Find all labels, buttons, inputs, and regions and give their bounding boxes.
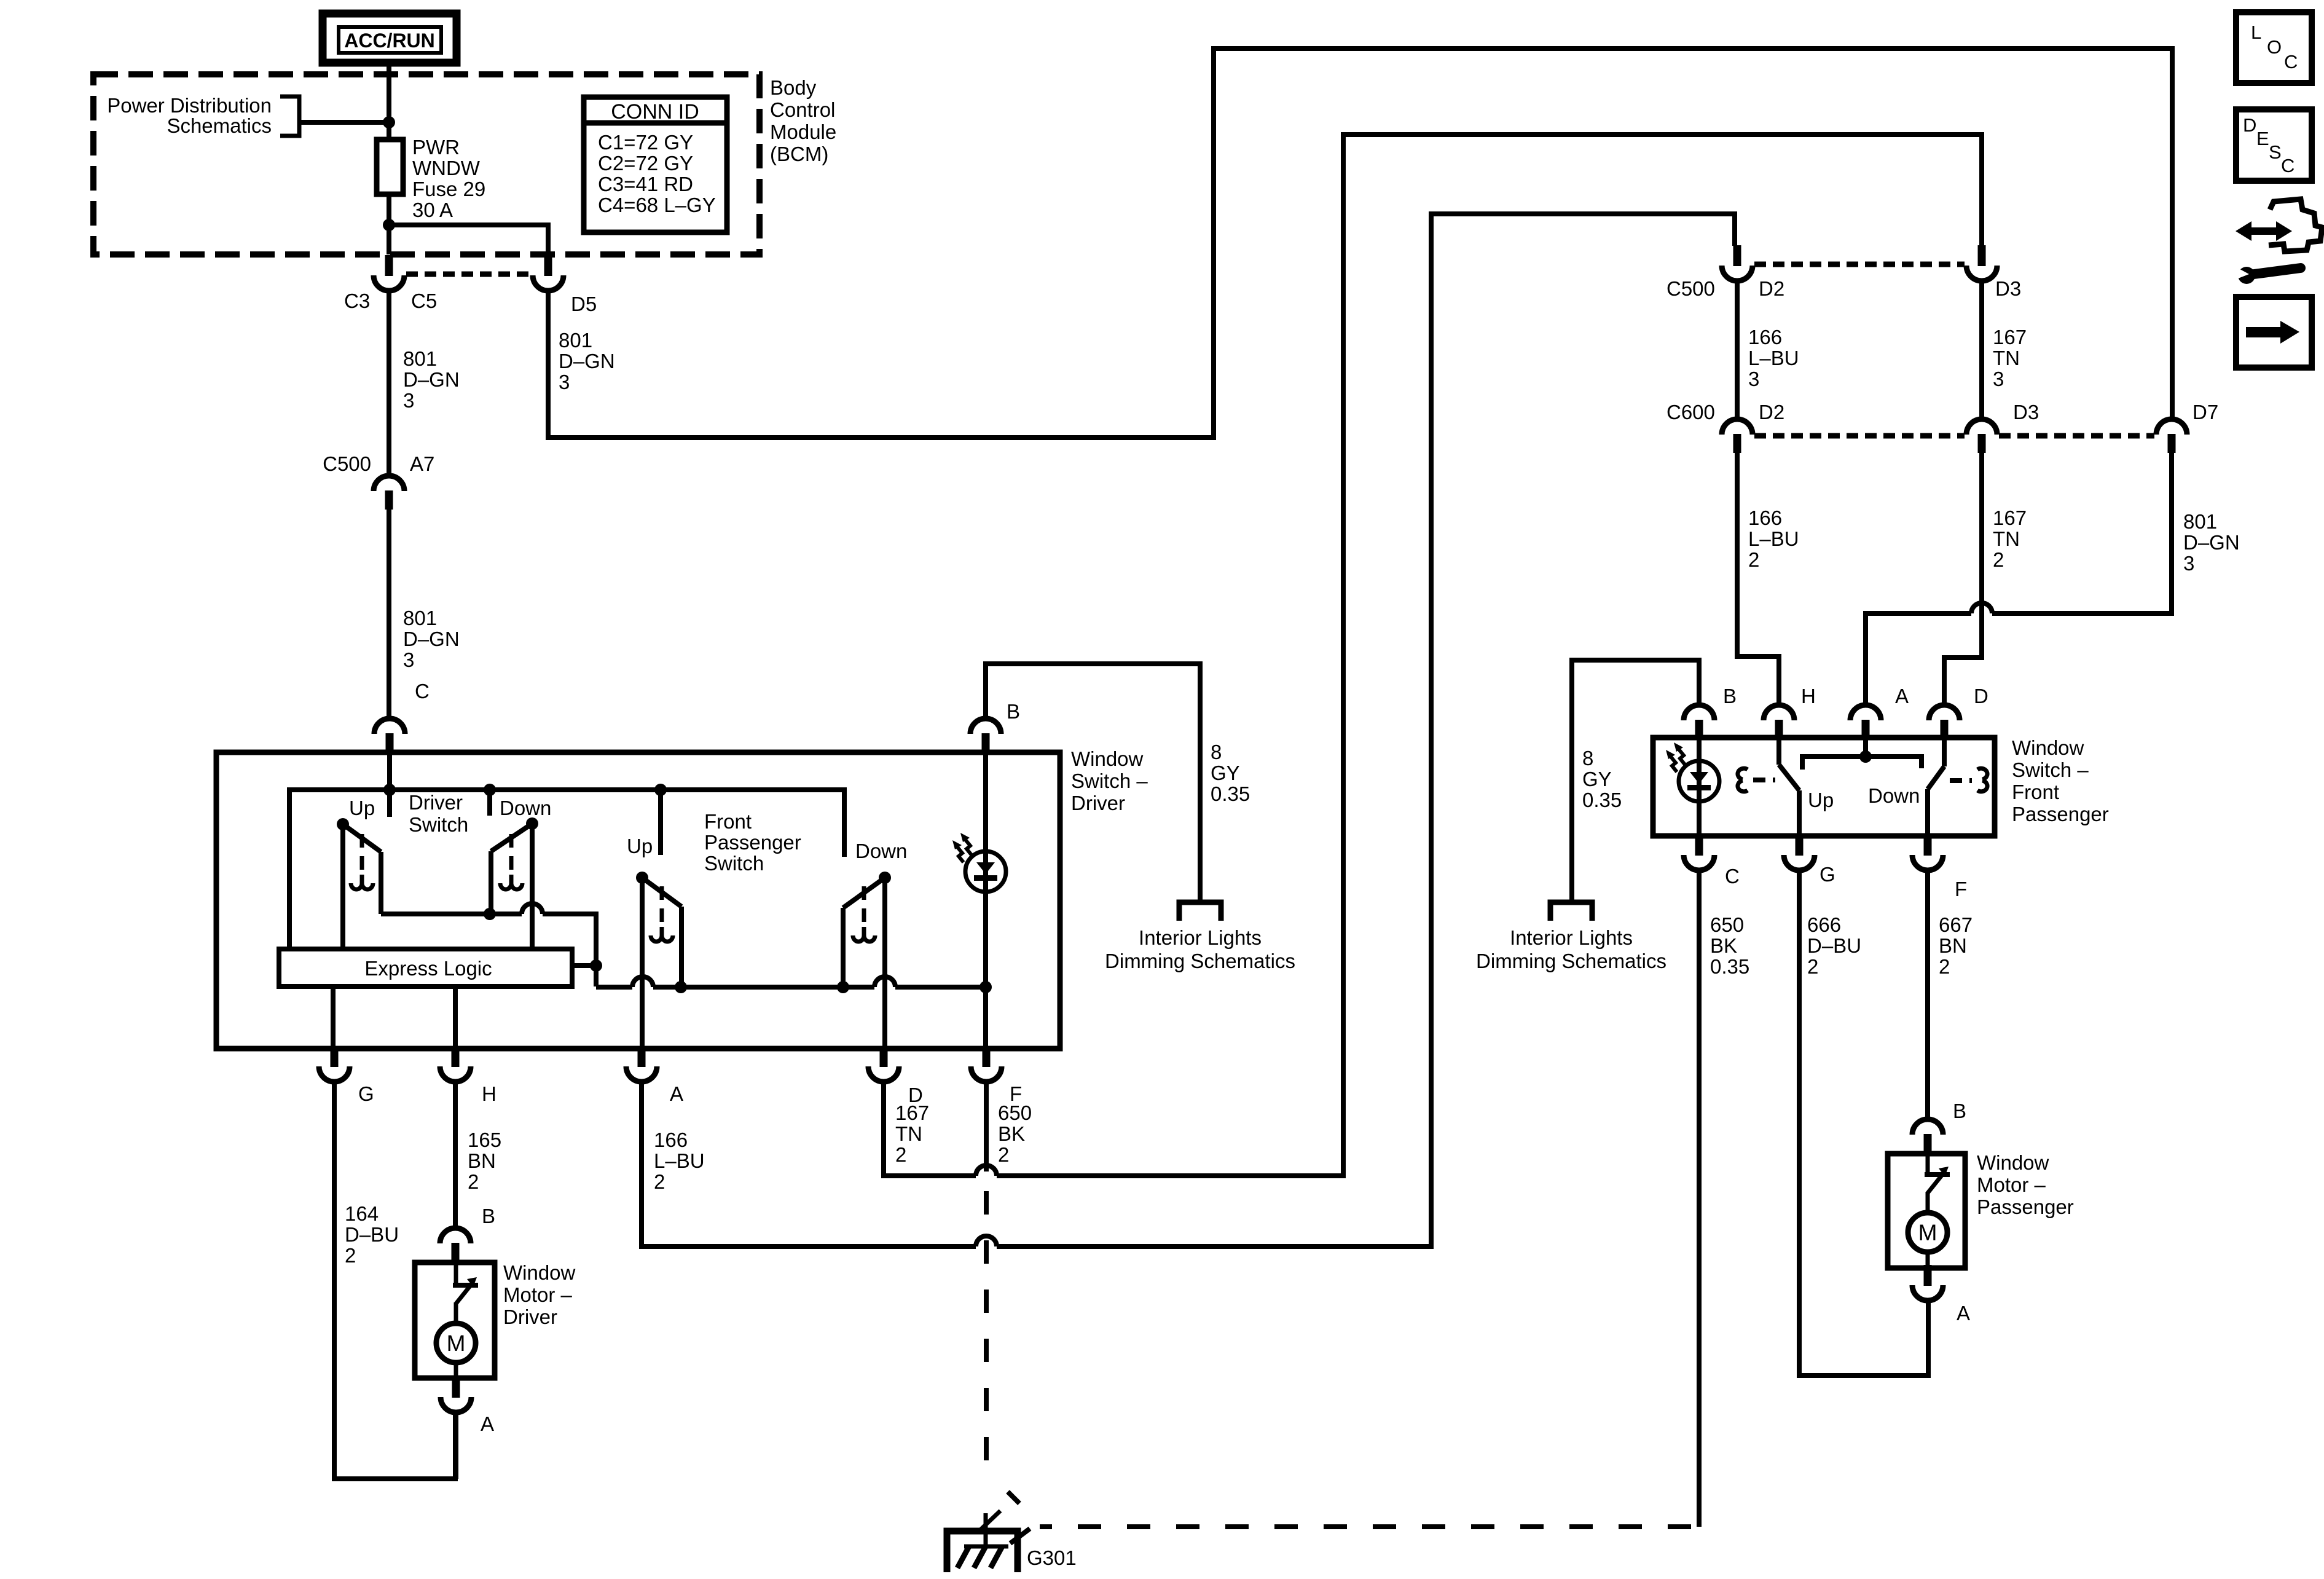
label fuse PWR WNDW Fuse 29 30 A	[412, 136, 485, 221]
svg-text:GY: GY	[1211, 762, 1240, 784]
svg-text:Up: Up	[349, 797, 375, 819]
off-page bracket interior lights dimming (passenger)	[1550, 902, 1592, 921]
icon LOC box	[2236, 12, 2312, 83]
internal rail passenger switch	[1802, 757, 1922, 770]
svg-text:Driver: Driver	[409, 791, 463, 814]
svg-text:G: G	[358, 1082, 374, 1105]
svg-text:L–BU: L–BU	[1748, 347, 1799, 369]
svg-text:C4=68 L–GY: C4=68 L–GY	[598, 194, 716, 216]
junction dot passenger up right leg at common	[675, 981, 687, 993]
wire 650 BK 0.35 from passenger C to ground run	[1697, 870, 1702, 1527]
svg-text:Driver: Driver	[1071, 792, 1125, 814]
motor M (driver)	[436, 1323, 476, 1378]
connector G (driver switch)	[319, 1046, 350, 1082]
svg-text:C3=41 RD: C3=41 RD	[598, 173, 693, 195]
svg-text:D5: D5	[571, 293, 597, 315]
wire 801 D-GN 3 from C500 A7 to driver switch C	[387, 510, 391, 719]
connector C3 (BCM)	[374, 255, 404, 291]
svg-text:801: 801	[559, 329, 592, 352]
svg-text:D–GN: D–GN	[403, 628, 460, 650]
connector B (passenger motor)	[1912, 1119, 1943, 1153]
svg-text:167: 167	[1993, 326, 2027, 348]
svg-text:0.35: 0.35	[1211, 782, 1250, 805]
switch passenger Up (H to G)	[1779, 738, 1799, 836]
svg-text:Window: Window	[503, 1261, 576, 1284]
wire from fuse node to D5	[389, 225, 548, 254]
label Window Motor - Driver	[503, 1261, 576, 1328]
value label 167 TN 2 (driver)	[895, 1101, 929, 1166]
LED indicator (driver switch)	[952, 752, 1006, 1051]
connector C600 D3	[1966, 419, 1997, 453]
wire 650 BK 2 dashed from F to G301	[984, 1082, 989, 1171]
value label 164 D-BU 2	[345, 1202, 399, 1267]
svg-text:D–BU: D–BU	[345, 1223, 399, 1246]
svg-text:D–GN: D–GN	[403, 368, 460, 391]
node Power Distribution Schematics	[107, 94, 272, 137]
svg-text:2: 2	[998, 1143, 1009, 1166]
svg-text:Module: Module	[770, 120, 836, 143]
connector D5 (BCM)	[533, 255, 563, 291]
value label 166 L-BU 2 (passenger)	[1748, 506, 1799, 571]
value label 801 D-GN 3 (C3 wire)	[403, 347, 460, 412]
svg-text:3: 3	[403, 389, 414, 412]
label Window Switch - Front Passenger	[2012, 736, 2109, 825]
wire 8 GY 0.35 from B to interior lights dimming	[986, 664, 1200, 900]
momentary contact symbol (passenger down)	[1977, 768, 1987, 792]
circuit breaker (driver motor)	[453, 1262, 478, 1325]
svg-text:Dimming Schematics: Dimming Schematics	[1105, 950, 1295, 972]
svg-text:C: C	[1725, 865, 1740, 888]
wire 8 GY 0.35 passenger B to interior lights dimming	[1572, 660, 1699, 900]
switch front passenger Up (in driver switch)	[636, 872, 681, 1051]
svg-text:Up: Up	[627, 835, 653, 857]
wire 167 TN 2 from D to C500 D3	[884, 135, 1982, 1176]
svg-text:D–BU: D–BU	[1807, 934, 1861, 957]
svg-text:Switch: Switch	[704, 852, 764, 875]
connector A (driver switch)	[626, 1046, 657, 1082]
svg-text:0.35: 0.35	[1582, 789, 1622, 811]
svg-text:Driver: Driver	[503, 1305, 557, 1328]
connector F (passenger switch)	[1912, 835, 1943, 870]
svg-text:B: B	[482, 1205, 495, 1227]
junction dot passenger rail	[1859, 750, 1872, 763]
junction dot express logic side stub	[590, 959, 602, 972]
value label 801 D-GN 3 (passenger)	[2183, 510, 2240, 575]
node label Interior Lights Dimming Schematics (driver)	[1105, 926, 1295, 972]
svg-text:L–BU: L–BU	[654, 1149, 705, 1172]
svg-text:H: H	[1801, 685, 1816, 707]
svg-text:G301: G301	[1027, 1546, 1077, 1569]
label Front Passenger Switch	[704, 810, 801, 875]
value label 165 BN 2	[468, 1128, 501, 1193]
svg-text:166: 166	[654, 1128, 688, 1151]
svg-text:Motor –: Motor –	[1977, 1173, 2046, 1196]
express logic right stub wire	[572, 963, 596, 968]
svg-text:D–GN: D–GN	[559, 350, 615, 372]
svg-text:TN: TN	[895, 1122, 922, 1145]
svg-text:L–BU: L–BU	[1748, 527, 1799, 550]
svg-text:C: C	[2284, 51, 2298, 73]
wire 666 D-BU 2 from passenger G to motor A	[1799, 870, 1928, 1376]
svg-text:2: 2	[1807, 955, 1818, 978]
svg-text:Switch –: Switch –	[2012, 758, 2089, 781]
svg-text:C500: C500	[323, 452, 371, 475]
motor box Window Motor - Driver	[415, 1262, 495, 1378]
svg-text:BK: BK	[1710, 934, 1737, 957]
svg-text:30 A: 30 A	[412, 199, 453, 221]
svg-text:BK: BK	[998, 1122, 1025, 1145]
label Window Switch - Driver	[1071, 747, 1148, 814]
svg-text:166: 166	[1748, 506, 1782, 529]
connector H (driver switch)	[440, 1046, 471, 1082]
svg-text:CONN ID: CONN ID	[611, 100, 699, 124]
svg-text:Power Distribution: Power Distribution	[107, 94, 272, 117]
wire 164 D-BU 2 from G to driver motor A	[334, 1082, 455, 1479]
component box Window Switch - Front Passenger	[1653, 738, 1995, 836]
connector C500 D3	[1966, 245, 1997, 281]
wire hop over passenger down output at common	[874, 977, 895, 987]
svg-text:Up: Up	[1808, 789, 1834, 811]
svg-text:A: A	[1895, 685, 1909, 707]
motor box Window Motor - Passenger	[1888, 1154, 1965, 1268]
svg-text:Down: Down	[500, 797, 551, 819]
svg-text:C: C	[415, 680, 430, 703]
svg-text:Window: Window	[2012, 736, 2084, 759]
svg-text:M: M	[1918, 1220, 1937, 1245]
wire hop over driver down output	[522, 904, 543, 914]
junction dot above fuse	[383, 116, 395, 128]
connector B (driver window switch)	[970, 719, 1001, 752]
svg-text:D: D	[1974, 685, 1988, 707]
connector C500 A7	[374, 476, 404, 510]
svg-text:8: 8	[1211, 741, 1222, 763]
svg-text:Passenger: Passenger	[2012, 803, 2109, 825]
connector B (driver motor)	[440, 1228, 471, 1262]
svg-text:A: A	[481, 1412, 494, 1435]
svg-text:L: L	[2251, 22, 2261, 43]
svg-text:Interior Lights: Interior Lights	[1139, 926, 1262, 949]
svg-text:165: 165	[468, 1128, 501, 1151]
svg-text:2: 2	[1993, 548, 2004, 571]
wire 667 BN 2 from passenger F to motor B	[1925, 870, 1930, 1119]
common wire to LED cathode node	[596, 985, 986, 990]
actuator dashes (passenger down)	[1950, 778, 1972, 783]
dashed harness line C600 D3 to D7	[1999, 433, 2154, 439]
svg-text:A7: A7	[410, 452, 434, 475]
wire 167 TN 3 between C500 and C600	[1979, 281, 1984, 419]
svg-text:Passenger: Passenger	[1977, 1195, 2074, 1218]
svg-text:D: D	[2243, 114, 2256, 136]
switch front passenger Down (in driver switch)	[843, 872, 891, 1051]
svg-text:D3: D3	[2013, 401, 2039, 423]
node label Interior Lights Dimming Schematics (passenger)	[1476, 926, 1666, 972]
svg-text:C: C	[2281, 155, 2295, 176]
value label 801 D-GN 3 (D5 wire)	[559, 329, 615, 393]
actuator dashes (passenger up)	[1753, 778, 1775, 782]
junction dot passenger down left leg at common	[837, 981, 849, 993]
svg-text:B: B	[1007, 700, 1020, 723]
svg-text:Front: Front	[2012, 781, 2059, 803]
wire from ACC/RUN down	[387, 63, 391, 140]
value label 801 D-GN 3 (to driver switch)	[403, 607, 460, 671]
connector C500 D2	[1722, 245, 1753, 281]
icon forward arrow box	[2236, 297, 2312, 368]
svg-text:3: 3	[2183, 552, 2194, 575]
wire express logic to G	[331, 986, 336, 1051]
wire hop 166 over ground dashes	[976, 1236, 997, 1246]
value label 167 TN 3	[1993, 326, 2027, 390]
svg-text:B: B	[1723, 685, 1737, 707]
svg-text:Body: Body	[770, 76, 817, 99]
icon DESC box	[2236, 109, 2312, 181]
wire 801 D-GN 3 from C3 to C500 A7	[387, 291, 391, 476]
wire hop over passenger up output at common	[632, 977, 653, 987]
svg-text:Down: Down	[855, 840, 907, 862]
ground run dashed to G301	[1040, 1524, 1691, 1529]
connector D (passenger switch)	[1929, 705, 1960, 739]
icon diagnostic arrows and wrench	[2235, 199, 2322, 284]
wire hop 801 over 167 vertical	[1971, 603, 1992, 613]
switch driver window Up	[337, 818, 381, 949]
connector G (passenger switch)	[1784, 835, 1815, 870]
svg-text:TN: TN	[1993, 527, 2020, 550]
value label 166 L-BU 3	[1748, 326, 1799, 390]
svg-text:801: 801	[403, 607, 437, 629]
svg-text:2: 2	[895, 1143, 906, 1166]
connector A (driver motor)	[441, 1377, 471, 1412]
svg-text:GY: GY	[1582, 768, 1612, 790]
svg-text:D2: D2	[1759, 401, 1784, 423]
value label 8 GY 0.35 (passenger)	[1582, 747, 1622, 811]
momentary contact symbol (passenger up)	[1738, 768, 1748, 792]
svg-text:S: S	[2269, 141, 2282, 163]
off-page bracket interior lights dimming (driver)	[1179, 902, 1221, 921]
svg-text:3: 3	[1993, 368, 2004, 390]
svg-text:Switch –: Switch –	[1071, 770, 1148, 792]
svg-text:WNDW: WNDW	[412, 157, 481, 179]
internal supply rail wire	[289, 790, 844, 949]
svg-text:Passenger: Passenger	[704, 831, 801, 854]
svg-text:A: A	[670, 1082, 683, 1105]
svg-text:167: 167	[1993, 506, 2027, 529]
svg-text:2: 2	[1939, 955, 1950, 978]
wire driver motor A down to loop	[453, 1412, 458, 1479]
svg-text:Switch: Switch	[409, 813, 468, 836]
svg-text:D3: D3	[1995, 277, 2021, 300]
svg-text:Fuse 29: Fuse 29	[412, 178, 485, 200]
wire express logic to H	[453, 986, 458, 1051]
svg-text:2: 2	[1748, 548, 1759, 571]
svg-text:PWR: PWR	[412, 136, 460, 159]
wire from Power Distribution to fuse node	[299, 120, 389, 125]
svg-text:A: A	[1957, 1302, 1970, 1325]
connector D7 (BCM second)	[2156, 419, 2187, 453]
component box Window Switch - Driver	[216, 752, 1060, 1049]
switch driver window Down	[491, 817, 538, 949]
motor M (passenger)	[1908, 1213, 1947, 1268]
svg-text:167: 167	[895, 1101, 929, 1124]
svg-text:3: 3	[1748, 368, 1759, 390]
wire 166 L-BU 3 between C500 and C600	[1735, 281, 1740, 419]
svg-text:H: H	[482, 1082, 497, 1105]
value label 167 TN 2 (passenger)	[1993, 506, 2027, 571]
passenger up fixed contact stub	[658, 790, 663, 855]
svg-text:2: 2	[345, 1244, 356, 1267]
wire 166 L-BU 2 from A to C500 D2	[642, 214, 1735, 1246]
svg-text:D7: D7	[2192, 401, 2218, 423]
svg-text:2: 2	[654, 1170, 665, 1193]
connector C (driver window switch)	[374, 719, 405, 752]
svg-text:(BCM): (BCM)	[770, 143, 828, 165]
svg-text:G: G	[1820, 863, 1835, 886]
fuse PWR WNDW Fuse 29 30 A	[377, 140, 403, 194]
svg-text:D–GN: D–GN	[2183, 531, 2240, 554]
svg-text:666: 666	[1807, 913, 1841, 936]
svg-text:164: 164	[345, 1202, 379, 1225]
wire driver switch outputs to express logic junction	[381, 914, 596, 986]
driver down fixed contact stub	[487, 790, 492, 816]
svg-text:3: 3	[403, 648, 414, 671]
box Express Logic	[279, 949, 572, 986]
wire 166 L-BU 2 from C600 D2 to passenger H	[1737, 453, 1779, 705]
ground G301	[947, 1511, 1018, 1572]
power source box ACC/RUN	[323, 14, 457, 63]
svg-text:801: 801	[2183, 510, 2217, 533]
wire 801 D-GN 3 from D5 to top right run	[548, 49, 2172, 438]
svg-text:2: 2	[468, 1170, 479, 1193]
Body Control Module (BCM) dashed box	[93, 74, 760, 254]
CONN ID table	[584, 97, 727, 232]
label Window Motor - Passenger	[1977, 1151, 2074, 1218]
dashed harness line C600 D2 to D3	[1754, 433, 1965, 439]
svg-text:C5: C5	[411, 289, 437, 312]
label Body Control Module (BCM)	[770, 76, 836, 165]
svg-text:Schematics: Schematics	[167, 114, 272, 137]
wire 167 TN 2 from C600 D3 to passenger D	[1944, 453, 1982, 705]
connector A (passenger switch)	[1850, 705, 1881, 739]
svg-text:650: 650	[1710, 913, 1744, 936]
value label 166 L-BU 2 (driver)	[654, 1128, 705, 1193]
svg-text:TN: TN	[1993, 347, 2020, 369]
svg-text:Interior Lights: Interior Lights	[1510, 926, 1633, 949]
svg-text:Express Logic: Express Logic	[364, 957, 492, 980]
svg-text:C3: C3	[344, 289, 370, 312]
junction dot rail at C	[383, 784, 396, 796]
value label 650 BK 2	[998, 1101, 1032, 1166]
switch passenger Down (D to F)	[1928, 738, 1944, 836]
junction dot driver down output	[484, 908, 496, 920]
connector B (passenger switch)	[1684, 705, 1714, 739]
svg-text:C1=72 GY: C1=72 GY	[598, 131, 693, 154]
svg-text:C500: C500	[1666, 277, 1715, 300]
value label 667 BN 2	[1939, 913, 1973, 978]
svg-text:8: 8	[1582, 747, 1593, 770]
connector C600 D2	[1722, 419, 1753, 453]
wire 801 D-GN 3 from D7 to passenger A	[1866, 453, 2172, 705]
svg-text:Down: Down	[1868, 784, 1920, 807]
junction dot rail at driver down	[484, 784, 496, 796]
connector F (driver switch)	[971, 1046, 1002, 1082]
svg-text:Motor –: Motor –	[503, 1283, 573, 1306]
svg-text:667: 667	[1939, 913, 1973, 936]
wire C into rail and driver up fixed contact	[387, 751, 392, 817]
svg-text:M: M	[447, 1331, 466, 1356]
svg-text:B: B	[1953, 1100, 1966, 1122]
connector C (passenger switch)	[1684, 835, 1714, 870]
svg-text:O: O	[2267, 36, 2282, 58]
svg-text:166: 166	[1748, 326, 1782, 348]
wire hop 167 over ground dashes	[976, 1165, 997, 1176]
svg-text:3: 3	[559, 371, 570, 393]
value label 650 BK 0.35	[1710, 913, 1749, 978]
wire fuse bottom	[387, 194, 391, 254]
connector D (driver switch)	[868, 1046, 899, 1082]
LED indicator (passenger switch)	[1666, 738, 1719, 836]
svg-text:ACC/RUN: ACC/RUN	[344, 30, 435, 52]
svg-text:BN: BN	[1939, 934, 1967, 957]
dashed harness line C500 D2 to D3	[1754, 262, 1965, 267]
svg-text:D2: D2	[1759, 277, 1784, 300]
svg-text:C600: C600	[1666, 401, 1715, 423]
label Driver Switch	[409, 791, 468, 836]
svg-text:0.35: 0.35	[1710, 955, 1749, 978]
wire 165 BN 2 from H to driver motor B	[453, 1082, 458, 1228]
value label 8 GY 0.35 (driver)	[1211, 741, 1250, 805]
svg-text:650: 650	[998, 1101, 1032, 1124]
svg-text:BN: BN	[468, 1149, 496, 1172]
svg-text:Window: Window	[1071, 747, 1144, 770]
bracket for Power Distribution Schematics	[280, 96, 299, 136]
svg-text:C2=72 GY: C2=72 GY	[598, 152, 693, 175]
svg-text:801: 801	[403, 347, 437, 370]
svg-text:F: F	[1955, 878, 1967, 900]
dashed harness line C5 to D5	[406, 272, 531, 277]
circuit breaker (passenger motor)	[1925, 1154, 1950, 1213]
svg-text:Control: Control	[770, 98, 835, 121]
connector H (passenger switch)	[1764, 705, 1794, 739]
junction dot rail at passenger up	[654, 784, 667, 796]
wire A pin to rail	[1863, 738, 1868, 757]
svg-text:Dimming Schematics: Dimming Schematics	[1476, 950, 1666, 972]
svg-text:E: E	[2256, 128, 2269, 149]
svg-text:Front: Front	[704, 810, 752, 833]
svg-text:Window: Window	[1977, 1151, 2049, 1174]
junction dot below fuse	[383, 219, 395, 231]
connector A (passenger motor)	[1912, 1265, 1943, 1301]
value label 666 D-BU 2	[1807, 913, 1861, 978]
